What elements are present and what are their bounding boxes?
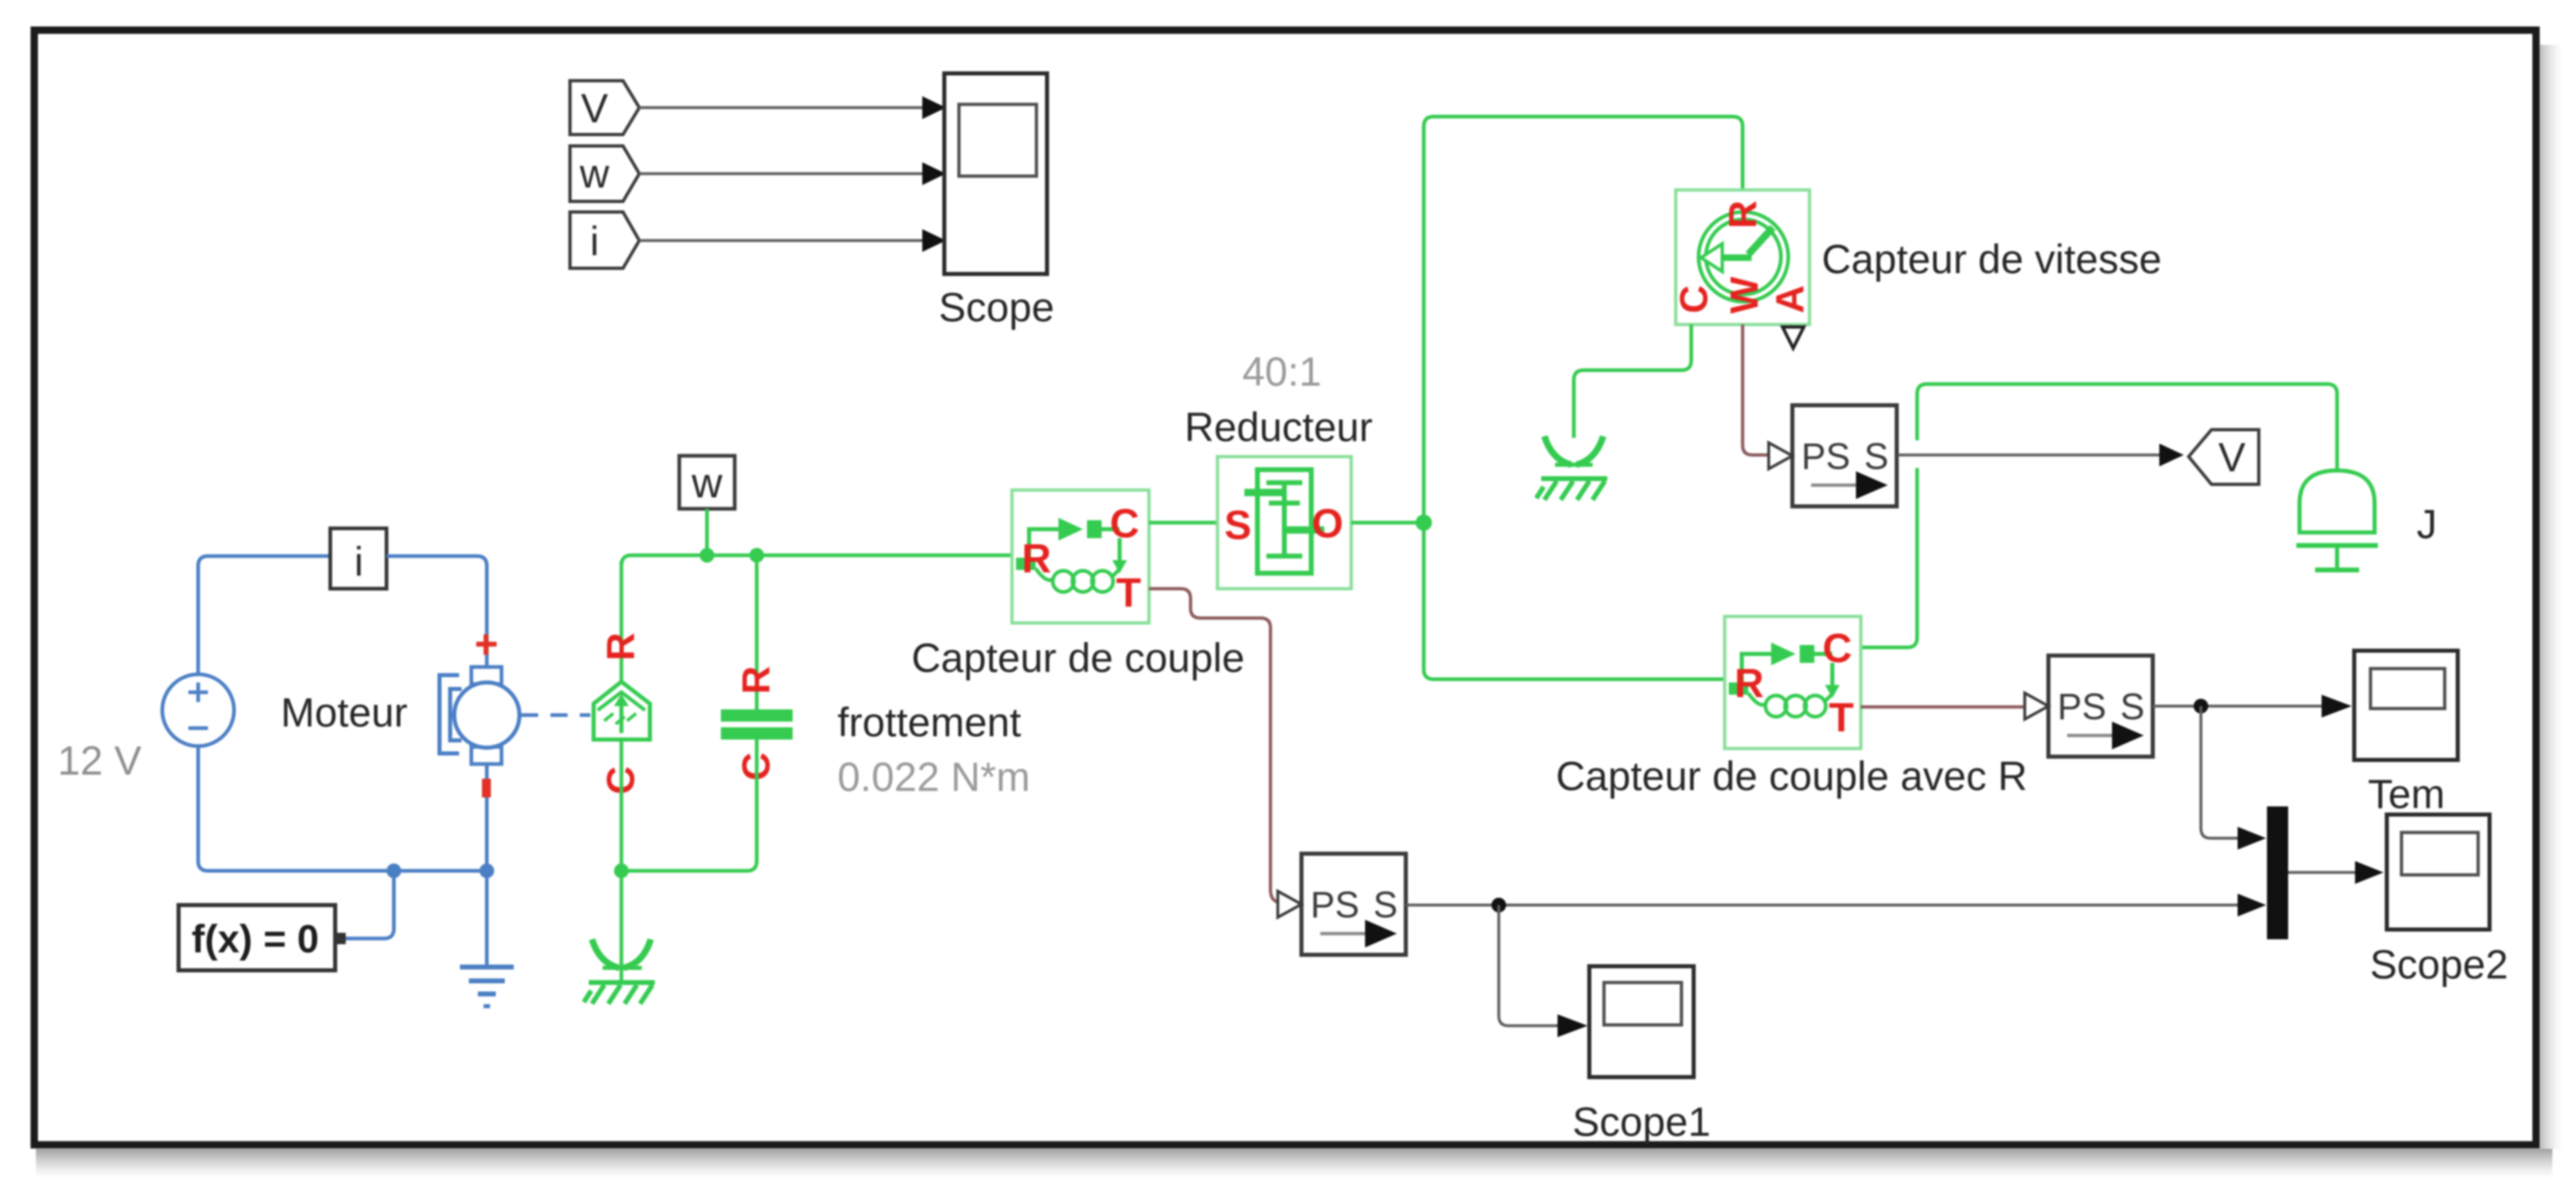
svg-text:S: S: [1224, 502, 1251, 548]
wire motor to bottom node: [485, 764, 489, 871]
torque sensor Capteur de couple avec R: [1556, 616, 2027, 799]
svg-text:R: R: [1022, 536, 1051, 581]
wire bus to damper: [755, 555, 759, 711]
wire junction to Scope1: [1499, 905, 1588, 1037]
ps-simulink converter (bottom): [1278, 854, 1406, 955]
torque sensor Capteur de couple: [912, 490, 1245, 681]
wire i to Scope: [639, 229, 946, 252]
svg-text:W: W: [1724, 276, 1767, 314]
dark red wire speed sensor W to PS converter: [1743, 325, 1769, 455]
rotational damper: [721, 666, 793, 781]
svg-text:V: V: [2218, 435, 2246, 480]
inertia J: [2296, 470, 2437, 570]
wire junction up to speed sensor: [1424, 117, 1743, 523]
node damper junction: [749, 548, 764, 563]
dark red wire torque sensor T to bottom PS converter: [1149, 589, 1278, 903]
wire torque sensor C to reducteur S: [1149, 521, 1217, 525]
wire current sensor to motor: [387, 556, 487, 667]
mechanical rotational reference left: [584, 871, 655, 1004]
svg-text:O: O: [1312, 501, 1344, 546]
svg-text:Scope: Scope: [939, 285, 1054, 330]
ps-simulink converter (torque avec R): [2025, 656, 2153, 757]
wire damper to bottom node: [621, 740, 757, 871]
label frottement: [837, 700, 1030, 800]
node Tem junction: [2194, 699, 2208, 713]
scope Tem: [2354, 651, 2458, 817]
scope Scope1: [1572, 966, 1711, 1145]
svg-text:R: R: [1734, 660, 1764, 706]
node mech bottom junction: [614, 863, 629, 878]
voltage source 12 V: [58, 674, 234, 784]
from tag w: [570, 146, 639, 201]
goto tag w (mechanical): [679, 456, 735, 509]
wire mux to Scope2: [2288, 861, 2384, 884]
svg-text:C: C: [1673, 285, 1717, 314]
motor Moteur: [281, 634, 519, 764]
svg-text:T: T: [1829, 695, 1854, 740]
scope Scope2: [2370, 815, 2508, 987]
mux: [2267, 806, 2288, 939]
wire source to current sensor i: [198, 556, 330, 674]
from tag V: [570, 81, 639, 135]
svg-text:12 V: 12 V: [58, 738, 143, 784]
svg-text:A: A: [1770, 285, 1813, 314]
wire C-line to inertia J: [1917, 384, 2337, 470]
svg-text:R: R: [736, 666, 779, 695]
scope Scope: [939, 73, 1054, 330]
wire bus to friction: [620, 561, 624, 683]
svg-text:0.022 N*m: 0.022 N*m: [837, 754, 1030, 800]
svg-text:J: J: [2417, 501, 2437, 547]
current sensor i: [330, 528, 387, 589]
wire source to bottom node: [198, 746, 487, 871]
svg-text:T: T: [1116, 570, 1142, 616]
node reducteur output junction: [1416, 515, 1432, 531]
svg-text:i: i: [354, 539, 363, 585]
svg-text:C: C: [1110, 501, 1139, 546]
wire w tag down: [705, 509, 709, 554]
wire f(x) to node: [346, 871, 394, 938]
mechanical rotational reference right: [1536, 436, 1607, 500]
svg-text:Capteur de couple: Capteur de couple: [912, 635, 1245, 681]
node at f(x) wire junction: [387, 863, 401, 878]
wire friction to bottom node: [620, 740, 624, 871]
mechanical bus wire to torque sensor: [621, 555, 1012, 566]
dashed connection motor to friction: [521, 713, 590, 718]
svg-text:40:1: 40:1: [1242, 349, 1321, 395]
dark red wire avec R T to PS converter: [1861, 705, 2025, 709]
goto tag V: [2189, 430, 2259, 484]
node w junction: [700, 548, 714, 563]
motor negative polarity mark: [482, 779, 491, 797]
svg-text:w: w: [579, 151, 610, 197]
wire junction down to mux: [2201, 706, 2266, 850]
svg-text:Scope1: Scope1: [1572, 1099, 1711, 1145]
wire junction down to torque sensor avec R: [1424, 523, 1725, 679]
svg-text:w: w: [691, 460, 722, 507]
svg-text:Capteur de couple avec R: Capteur de couple avec R: [1556, 753, 2027, 799]
svg-text:Capteur de vitesse: Capteur de vitesse: [1822, 236, 2162, 282]
svg-text:frottement: frottement: [837, 700, 1021, 745]
svg-text:Moteur: Moteur: [281, 690, 408, 735]
svg-text:V: V: [581, 86, 608, 131]
signal wire bottom PS to mux: [1406, 894, 2266, 916]
wire reducteur O to junction: [1351, 521, 1424, 525]
speed sensor Capteur de vitesse: [1673, 190, 2162, 325]
svg-text:R: R: [600, 633, 643, 661]
svg-text:R: R: [1722, 201, 1765, 229]
signal wire to Tem: [2153, 695, 2352, 718]
svg-text:Scope2: Scope2: [2370, 942, 2508, 987]
rotational friction: [594, 633, 650, 795]
unconnected port marker: [1783, 327, 1804, 348]
svg-text:Reducteur: Reducteur: [1185, 404, 1373, 450]
signal wire to goto V: [1898, 444, 2184, 466]
ps-simulink converter (speed): [1769, 405, 1897, 506]
wire w to Scope: [639, 162, 946, 185]
wire torque sensor avec R C port up (with crossing gap): [1861, 394, 1917, 647]
gear box Reducteur: [1185, 349, 1373, 589]
svg-text:f(x) = 0: f(x) = 0: [192, 918, 319, 961]
electrical ground: [460, 871, 514, 1006]
wire speed sensor C to reference: [1574, 325, 1691, 438]
from tag i: [570, 212, 639, 268]
svg-text:i: i: [590, 219, 599, 264]
svg-text:Tem: Tem: [2368, 771, 2445, 817]
node at ground junction: [479, 863, 494, 878]
solver configuration f(x) = 0: [179, 905, 346, 970]
node Scope1 junction: [1491, 898, 1506, 912]
wire V to Scope: [639, 96, 946, 119]
svg-text:C: C: [1823, 625, 1852, 671]
